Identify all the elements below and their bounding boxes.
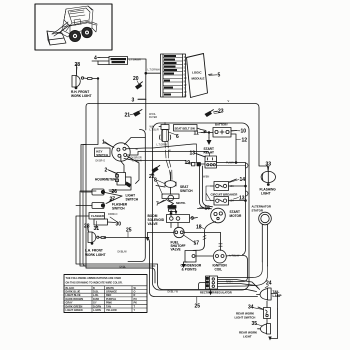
svg-text:21: 21 xyxy=(125,113,131,119)
svg-text:R/WH: R/WH xyxy=(226,280,233,283)
svg-text:13: 13 xyxy=(239,196,245,202)
seat belt switch connector xyxy=(159,125,197,142)
svg-text:L.H. FRONT: L.H. FRONT xyxy=(85,249,103,253)
console border xyxy=(128,130,145,262)
svg-text:33: 33 xyxy=(266,162,272,168)
svg-text:10A: 10A xyxy=(230,185,235,188)
lamp R.H. front work light xyxy=(72,65,84,89)
svg-text:17: 17 xyxy=(194,241,200,247)
svg-text:LAMP: LAMP xyxy=(273,294,283,298)
svg-text:6: 6 xyxy=(176,134,179,140)
svg-text:SWITCH: SWITCH xyxy=(112,207,125,211)
svg-text:COIL: COIL xyxy=(215,268,223,272)
svg-text:R: R xyxy=(134,294,136,297)
abbreviation table xyxy=(64,275,147,313)
svg-text:19: 19 xyxy=(185,160,191,166)
breaker left feed xyxy=(206,186,211,201)
rectifier/regulator xyxy=(199,276,218,295)
hourmeter xyxy=(109,170,126,185)
svg-text:10: 10 xyxy=(241,129,247,135)
fuel shutoff valve xyxy=(146,223,223,251)
connector icon 22 xyxy=(152,165,160,174)
logic module connector labels (wire colors) xyxy=(164,55,177,96)
flashing light xyxy=(261,167,275,186)
bottom wire DKBL/W to tail lamp xyxy=(158,283,257,292)
svg-text:RED: RED xyxy=(106,294,111,297)
label 3 tick xyxy=(138,98,146,100)
key switch label box xyxy=(95,148,111,157)
key switch xyxy=(105,143,131,162)
relay right wire to breaker xyxy=(217,163,246,167)
svg-text:20: 20 xyxy=(133,76,139,82)
skid steer loader illustration xyxy=(52,6,97,37)
svg-text:PINK: PINK xyxy=(106,302,112,305)
trunk wire 3 down xyxy=(145,73,147,130)
seat bar vertical link xyxy=(165,142,172,180)
svg-text:& POINTS: & POINTS xyxy=(182,268,197,272)
seat switch plate xyxy=(159,194,180,206)
svg-text:9: 9 xyxy=(191,216,194,222)
oil filter option connector xyxy=(164,123,166,125)
svg-text:FILTER: FILTER xyxy=(149,116,157,119)
svg-text:L.GRN: L.GRN xyxy=(93,309,101,312)
svg-text:25: 25 xyxy=(126,228,132,234)
rear work light xyxy=(258,309,278,341)
bottom wire 25 to tail lamp xyxy=(104,238,258,297)
svg-text:28: 28 xyxy=(84,224,90,230)
svg-text:BATTERY: BATTERY xyxy=(215,123,228,127)
svg-text:PU/WH: PU/WH xyxy=(226,161,234,164)
bucket xyxy=(47,31,66,45)
svg-text:LIGHT SWITCH: LIGHT SWITCH xyxy=(235,315,256,319)
logic module pin numbers strip xyxy=(184,55,187,98)
battery xyxy=(201,128,237,138)
svg-text:LOGIC: LOGIC xyxy=(192,71,202,75)
svg-text:14: 14 xyxy=(240,177,246,183)
junction dots xyxy=(235,162,237,164)
svg-text:DKBR-O: DKBR-O xyxy=(108,213,117,216)
svg-text:2: 2 xyxy=(105,168,108,174)
svg-text:DARK GREEN: DARK GREEN xyxy=(66,305,83,308)
neutral connector stack xyxy=(168,206,176,215)
relay left connector xyxy=(187,163,206,166)
wire key switch to engine area (upper) xyxy=(153,144,197,163)
wire L2 bottom xyxy=(86,268,155,283)
svg-text:DKBL: DKBL xyxy=(120,265,127,268)
svg-text:30: 30 xyxy=(116,222,122,228)
component name labels xyxy=(71,71,282,339)
option box (item 4) xyxy=(98,57,146,72)
wire hops on breaker bus xyxy=(246,163,249,196)
svg-text:15A: 15A xyxy=(230,199,235,202)
svg-text:5: 5 xyxy=(218,73,221,79)
wires from key switch right xyxy=(121,138,153,184)
wire to option box 4 xyxy=(92,58,109,65)
wire bundle left verticals xyxy=(76,191,158,283)
svg-text:PURPLE: PURPLE xyxy=(106,298,116,301)
svg-text:SWITCH: SWITCH xyxy=(180,189,193,193)
svg-text:O: O xyxy=(134,291,136,294)
logic module connector block xyxy=(161,54,186,97)
svg-text:34: 34 xyxy=(248,305,254,311)
svg-text:31: 31 xyxy=(94,226,100,232)
svg-text:THE FOLLOWING ABBREVIATIONS AR: THE FOLLOWING ABBREVIATIONS ARE USED xyxy=(66,277,122,280)
svg-text:22: 22 xyxy=(149,174,155,180)
svg-text:WORK LIGHT: WORK LIGHT xyxy=(71,94,92,98)
connector icon 23 xyxy=(205,110,218,117)
seat belt wire to battery xyxy=(197,128,206,131)
svg-text:MOTOR: MOTOR xyxy=(230,214,243,218)
svg-text:TAN: TAN xyxy=(106,305,111,308)
svg-text:WORK LIGHT: WORK LIGHT xyxy=(85,253,106,257)
svg-text:RELAY: RELAY xyxy=(204,151,215,155)
condenser & points xyxy=(182,251,214,269)
svg-text:16: 16 xyxy=(205,206,211,212)
logic module connector wire rows xyxy=(163,58,183,93)
circuit breaker 14 xyxy=(211,179,237,191)
node junction top trunk xyxy=(145,72,147,74)
ignition coil xyxy=(213,250,230,263)
svg-text:HOURMETER: HOURMETER xyxy=(95,177,116,181)
svg-text:NEUTRL: NEUTRL xyxy=(176,202,186,205)
svg-text:GRAY: GRAY xyxy=(66,302,73,305)
wire flasher-left xyxy=(76,216,158,283)
svg-text:RECTIFIER/REGULATOR: RECTIFIER/REGULATOR xyxy=(200,291,232,295)
svg-text:VALVE: VALVE xyxy=(171,248,181,252)
item number labels xyxy=(75,56,272,328)
svg-text:DARK BROWN: DARK BROWN xyxy=(66,298,84,301)
svg-text:SWITCH: SWITCH xyxy=(96,153,108,157)
svg-text:VALVE: VALVE xyxy=(148,222,158,226)
front wheel xyxy=(69,30,80,41)
svg-text:LIGHT GREEN: LIGHT GREEN xyxy=(66,309,83,312)
svg-text:4: 4 xyxy=(94,56,97,62)
svg-text:12: 12 xyxy=(242,138,248,144)
svg-text:SWITCH: SWITCH xyxy=(126,198,139,202)
connector on hourmeter wire xyxy=(125,182,132,188)
lamp L.H. front work light xyxy=(88,227,106,245)
tiny wire color labels xyxy=(96,58,240,293)
arrow below neutral stack xyxy=(170,213,173,217)
svg-text:26: 26 xyxy=(112,189,118,195)
svg-text:LIGHT: LIGHT xyxy=(261,192,271,196)
svg-text:ON THIS DRAWING TO INDICATE WI: ON THIS DRAWING TO INDICATE WIRE COLOR. xyxy=(66,282,123,285)
seat switch bar xyxy=(156,172,176,194)
wire lightswitch-left xyxy=(80,191,155,266)
svg-text:DKGR-O: DKGR-O xyxy=(96,159,106,162)
svg-text:28: 28 xyxy=(75,62,81,68)
battery + wire down right xyxy=(231,134,236,162)
svg-text:L.T.GR/WH: L.T.GR/WH xyxy=(129,58,141,61)
light switch box 26 xyxy=(81,189,122,204)
start motor xyxy=(198,208,226,223)
svg-text:W/BN: W/BN xyxy=(203,175,210,178)
svg-text:L.T.BL/R: L.T.BL/R xyxy=(133,159,142,162)
connector icon 21 xyxy=(133,110,142,117)
svg-text:L.T.BL/R: L.T.BL/R xyxy=(150,129,159,132)
svg-text:L.T.BL/W: L.T.BL/W xyxy=(230,254,240,257)
svg-text:D.GRN: D.GRN xyxy=(93,305,101,308)
svg-text:D.BR: D.BR xyxy=(93,298,99,301)
svg-text:L.BL: L.BL xyxy=(93,294,99,297)
alternator wires curve to rectifier xyxy=(218,262,263,278)
circuit breaker 13 xyxy=(211,197,234,206)
svg-text:STATOR: STATOR xyxy=(252,208,264,212)
logic module box xyxy=(187,54,213,98)
wire from node to logic connector bus xyxy=(146,72,161,74)
item 18 wire xyxy=(193,222,216,251)
label pointer lines xyxy=(77,58,270,327)
svg-text:v: v xyxy=(228,99,230,103)
svg-text:FLASHER: FLASHER xyxy=(91,214,104,218)
loader arm xyxy=(52,22,68,34)
outer border (cab area) xyxy=(89,104,268,171)
option box 4 tiny text xyxy=(111,58,127,63)
svg-text:PU: PU xyxy=(134,298,138,301)
svg-text:DKBL/W: DKBL/W xyxy=(118,250,128,253)
svg-text:LIGHT BLUE: LIGHT BLUE xyxy=(66,294,81,297)
rear wheel xyxy=(82,27,92,37)
battery ground arrow xyxy=(207,138,212,146)
wire from RH work light to junction xyxy=(81,78,98,192)
svg-text:11: 11 xyxy=(194,131,200,137)
svg-text:GY: GY xyxy=(93,302,97,305)
svg-text:WHITE: WHITE xyxy=(106,287,114,290)
svg-text:DARK BLUE: DARK BLUE xyxy=(66,291,81,294)
svg-text:CIRCUIT BREAKER: CIRCUIT BREAKER xyxy=(211,192,239,196)
battery 11 junction dot xyxy=(208,132,210,134)
alternator stator xyxy=(259,212,272,266)
ignition right wire loop xyxy=(218,256,248,282)
svg-text:D.BL: D.BL xyxy=(93,291,99,294)
svg-text:24: 24 xyxy=(266,281,272,287)
rear work light switch xyxy=(258,301,271,324)
tail lamp xyxy=(257,288,278,309)
flasher switch box 27 xyxy=(76,145,105,267)
start relay xyxy=(196,154,217,169)
relay bottom wire to start motor xyxy=(200,166,212,209)
item 9 pointer xyxy=(194,217,198,220)
svg-text:35: 35 xyxy=(252,321,258,327)
svg-text:25: 25 xyxy=(195,304,201,310)
rectifier right wires to tail lamp xyxy=(218,280,259,289)
connector icon 20 xyxy=(135,82,143,90)
svg-text:MODULE: MODULE xyxy=(192,77,205,81)
svg-text:YELLOW: YELLOW xyxy=(106,309,117,312)
svg-text:L.T.GR/W: L.T.GR/W xyxy=(157,144,168,147)
svg-text:DKBL / W: DKBL / W xyxy=(168,290,179,293)
machine illustration frame xyxy=(35,4,112,50)
svg-text:SEAT BELT SW: SEAT BELT SW xyxy=(175,126,196,130)
svg-text:13: 13 xyxy=(190,151,196,157)
wire hourmeter right xyxy=(109,177,131,190)
svg-text:BLACK: BLACK xyxy=(66,287,75,290)
boom solenoid valve xyxy=(167,215,195,223)
svg-text:B: B xyxy=(93,287,95,290)
svg-text:PK: PK xyxy=(134,302,138,305)
svg-text:7: 7 xyxy=(156,202,159,208)
svg-text:18: 18 xyxy=(196,225,202,231)
svg-text:1: 1 xyxy=(102,140,105,146)
breaker right bus xyxy=(233,166,246,255)
svg-text:ORANGE: ORANGE xyxy=(106,291,117,294)
svg-text:3: 3 xyxy=(132,98,135,104)
flasher box xyxy=(89,213,116,229)
table text xyxy=(66,277,138,312)
engine compartment border xyxy=(153,123,250,290)
svg-text:LIGHT: LIGHT xyxy=(243,334,252,338)
svg-text:L.T.GR/WH: L.T.GR/WH xyxy=(148,68,160,71)
svg-text:23: 23 xyxy=(218,109,224,115)
